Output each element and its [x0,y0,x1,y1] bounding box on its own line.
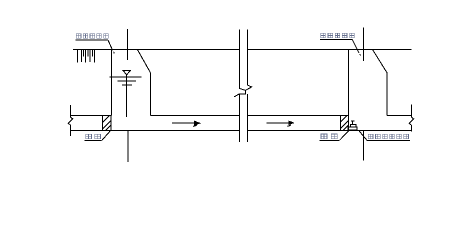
upstream well left wall [111,50,113,116]
ground line (right segment) [248,49,412,51]
left pipe-end break line [68,105,73,136]
right brick plug [340,116,348,131]
standpipe upper left [238,30,240,89]
upstream well neck slope [137,50,150,73]
water symbol vertical [126,75,128,117]
upstream well right wall [150,73,152,116]
flow arrow 1 [172,121,200,126]
left brick plug [103,116,112,131]
pipe bottom segments [71,130,240,132]
label leader: drain pipe and valve [359,131,410,141]
standpipe upper right [246,30,248,86]
label leader: downstream well [320,40,361,56]
ground line (left segment) [73,49,239,51]
text: 砖堵 (brick plug, right) [321,134,337,139]
standpipe lower left [238,94,240,142]
upstream well centerline below pipe [127,131,129,163]
label leader: left brick plug [84,130,111,141]
drain valve [348,121,357,130]
standpipe lower right [246,94,248,142]
text: 放水管和阀门 (drain pipe and valve) [368,134,408,139]
downstream well centerline below pipe [362,131,364,161]
text: 下游检查井 (downstream inspection well) [321,33,354,38]
downstream well right wall [386,73,388,116]
downstream well centerline stub [362,28,364,61]
right pipe-end break line [409,104,414,131]
downstream well neck slope [373,50,388,73]
label leader: right brick plug [320,130,350,141]
downstream well left wall [348,50,350,116]
water bar 1 [109,76,141,78]
ground hatch ticks [78,50,95,63]
label leader: upstream well [75,40,114,53]
upstream well centerline stub above ground [127,29,129,60]
pipe top segments [71,115,103,117]
standpipe break squiggle [234,85,252,97]
water level triangle [123,71,130,75]
flow arrow 2 [266,121,294,126]
water bar 3 [122,84,132,86]
text: 砖堵 (brick plug, left) [86,134,101,139]
text: 上游检查井 (upstream inspection well) [76,34,108,39]
water bar 2 [118,80,137,82]
